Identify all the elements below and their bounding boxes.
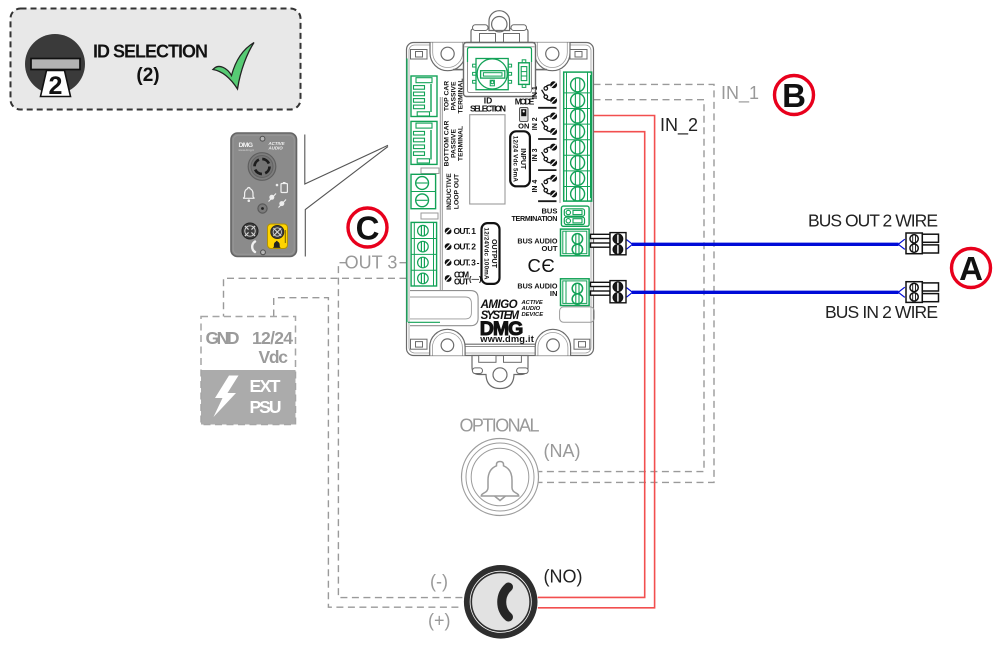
svg-text:OUT: OUT <box>454 278 469 287</box>
svg-text:IN 2: IN 2 <box>532 117 539 130</box>
svg-text:2: 2 <box>49 72 63 100</box>
svg-text:AUDIO: AUDIO <box>268 146 284 151</box>
svg-text:OUT: OUT <box>541 244 557 253</box>
svg-text:TERMINATION: TERMINATION <box>512 214 558 223</box>
svg-text:(+): (+) <box>428 611 451 631</box>
svg-text:PSU: PSU <box>250 397 282 417</box>
svg-text:(—): (—) <box>469 274 482 283</box>
svg-text:OUT. 1: OUT. 1 <box>454 226 477 236</box>
svg-text:BUS OUT 2 WIRE: BUS OUT 2 WIRE <box>808 211 938 231</box>
svg-text:PASSIVE: PASSIVE <box>451 129 458 158</box>
svg-text:12/24Vdc 100mA: 12/24Vdc 100mA <box>482 228 489 281</box>
svg-text:BUS IN 2 WIRE: BUS IN 2 WIRE <box>825 302 938 322</box>
svg-text:GND: GND <box>206 328 240 348</box>
svg-text:DEVICE: DEVICE <box>522 312 545 318</box>
svg-text:(NA): (NA) <box>544 441 581 461</box>
svg-text:B: B <box>782 77 806 114</box>
svg-text:TOP CAR: TOP CAR <box>444 81 451 111</box>
svg-text:OUT. 2: OUT. 2 <box>454 242 477 252</box>
svg-text:ID SELECTION: ID SELECTION <box>93 42 208 62</box>
svg-text:INDUCTIVE: INDUCTIVE <box>446 173 453 210</box>
svg-text:CЄ: CЄ <box>528 255 556 276</box>
svg-text:TERMINAL: TERMINAL <box>458 126 465 161</box>
svg-text:INPUT: INPUT <box>519 148 526 170</box>
svg-text:OUTPUT: OUTPUT <box>490 239 497 269</box>
svg-text:LOOP OUT: LOOP OUT <box>454 173 461 209</box>
svg-text:ON: ON <box>518 122 529 131</box>
svg-text:IN_1: IN_1 <box>721 83 759 104</box>
svg-text:IN 4: IN 4 <box>532 180 539 193</box>
svg-text:EXT: EXT <box>250 376 281 396</box>
svg-text:C: C <box>356 210 380 247</box>
svg-text:(2): (2) <box>136 65 159 86</box>
svg-text:A: A <box>959 250 983 287</box>
svg-text:12/24 Vdc 5mA: 12/24 Vdc 5mA <box>511 136 518 183</box>
svg-text:IN 3: IN 3 <box>532 148 539 161</box>
svg-text:OPTIONAL: OPTIONAL <box>460 416 540 436</box>
svg-text:OUT 3: OUT 3 <box>345 253 398 273</box>
svg-text:TERMINAL: TERMINAL <box>458 78 465 113</box>
svg-text:IN_2: IN_2 <box>660 115 698 136</box>
svg-text:(-): (-) <box>430 572 448 592</box>
svg-text:12/24: 12/24 <box>252 328 293 348</box>
svg-text:www.dmg.it: www.dmg.it <box>479 334 534 344</box>
svg-text:OUT. 3 -: OUT. 3 - <box>454 258 480 268</box>
svg-text:www.dmg.it: www.dmg.it <box>239 148 255 152</box>
svg-text:IN 1: IN 1 <box>532 86 539 99</box>
svg-text:PASSIVE: PASSIVE <box>451 81 458 110</box>
svg-text:BOTTOM CAR: BOTTOM CAR <box>444 120 451 166</box>
svg-text:(NO): (NO) <box>544 567 583 587</box>
svg-text:Vdc: Vdc <box>259 347 289 367</box>
svg-text:SELECTION: SELECTION <box>470 104 506 114</box>
svg-text:IN: IN <box>550 289 558 298</box>
